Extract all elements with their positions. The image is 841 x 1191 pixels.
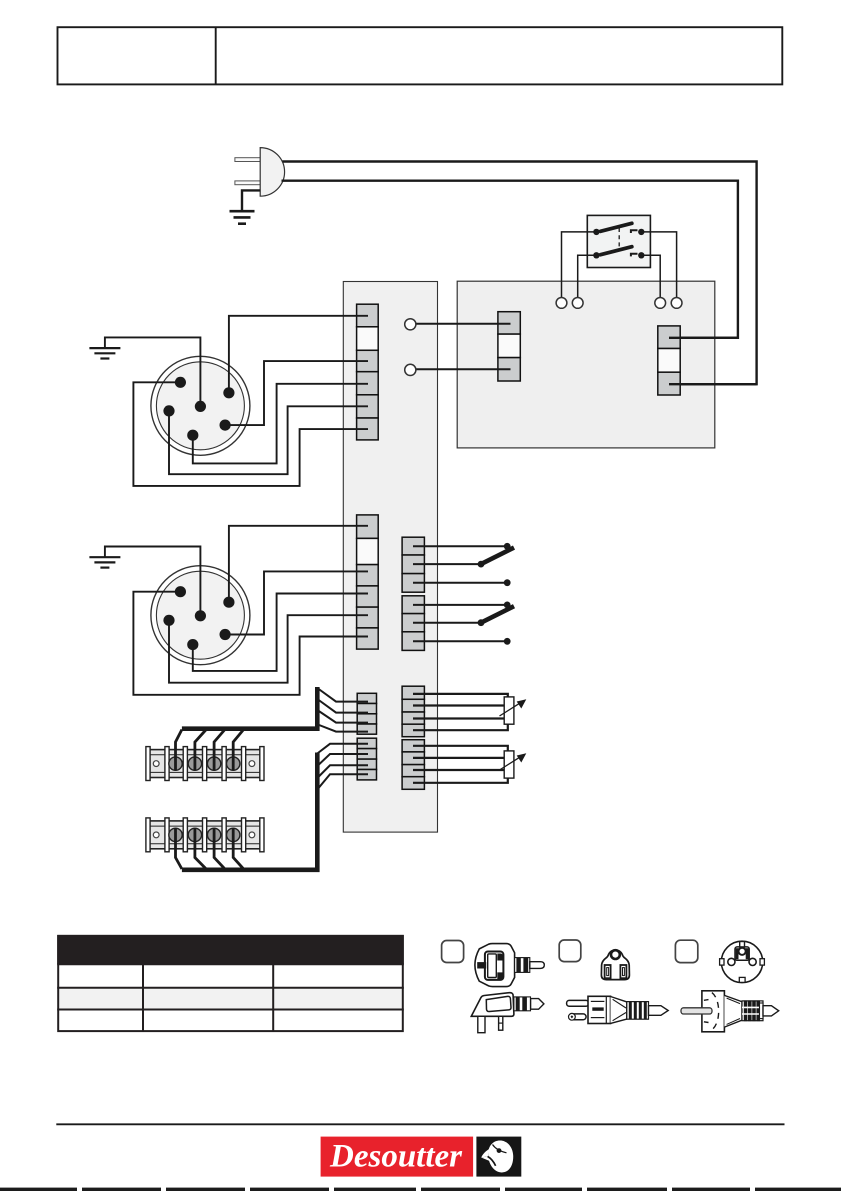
node xyxy=(504,543,511,550)
plug pin lower xyxy=(235,181,261,185)
fuse clip top xyxy=(497,954,502,961)
cord grip stripes xyxy=(514,997,531,1011)
grid xyxy=(57,936,404,1031)
row shading xyxy=(58,988,403,1010)
switch contacts S3 xyxy=(413,602,514,645)
pin 4 center xyxy=(195,401,206,412)
earth contact box xyxy=(735,947,749,960)
connector stack X2 xyxy=(357,515,379,649)
bus wire TB1 xyxy=(182,687,317,729)
node xyxy=(478,619,485,626)
wire stub left cell1 xyxy=(416,323,511,325)
wire X4.6 xyxy=(413,640,507,642)
fuse xyxy=(488,954,497,978)
potentiometer R2 xyxy=(413,746,526,783)
wire pole1 right xyxy=(641,232,676,298)
pin 6 xyxy=(187,430,198,441)
cable xyxy=(530,962,545,969)
wire pole2 left xyxy=(578,255,597,297)
wire X4.3 xyxy=(413,582,507,584)
blade pin xyxy=(567,1000,589,1006)
EU plug side xyxy=(681,991,779,1032)
wire pin5 to X1.3 xyxy=(225,361,368,425)
screw terminals xyxy=(169,828,240,841)
control unit U2 xyxy=(416,298,757,396)
connector stack X1 xyxy=(357,304,379,440)
connector stack X3 xyxy=(357,693,376,780)
mounting holes xyxy=(153,832,159,838)
ground hole xyxy=(611,950,620,959)
connector stack X4 xyxy=(402,537,424,650)
fan wires to X3 xyxy=(317,744,368,790)
pot body xyxy=(504,751,514,778)
wire pin5 to X2.3 xyxy=(225,571,368,634)
strip body xyxy=(147,750,263,778)
pin 1 xyxy=(175,586,186,597)
US plug face xyxy=(601,950,629,980)
connector block left xyxy=(498,312,520,381)
terminal circle 1 xyxy=(556,298,567,309)
wire X5.3 xyxy=(413,717,504,719)
boot stripes xyxy=(627,1002,649,1020)
US plug side xyxy=(567,996,669,1023)
header bar xyxy=(57,935,404,964)
wire X5.4 xyxy=(413,724,508,730)
board terminal circle B xyxy=(405,364,416,375)
wire pin2 to X1.1 xyxy=(229,316,368,393)
wiper arrow xyxy=(500,703,521,716)
switch contacts S2 xyxy=(413,543,514,586)
wire pin3 to X1.5 xyxy=(169,406,368,474)
fan wires to X3 xyxy=(317,688,369,732)
main board U1 outline xyxy=(343,282,437,833)
switch lever xyxy=(481,548,514,565)
wire pin6 to X2.4 xyxy=(193,594,368,671)
data table xyxy=(57,935,404,1031)
checkbox UK xyxy=(442,941,464,963)
wire pin1 to X1.6 xyxy=(133,382,368,486)
wire X5.6 xyxy=(413,757,504,759)
wire X4.4 xyxy=(413,604,507,606)
strip body xyxy=(147,821,263,849)
body xyxy=(588,996,611,1023)
DIN connector J1 xyxy=(89,316,368,486)
pot body xyxy=(504,697,514,724)
screw terminals xyxy=(169,757,240,770)
mains plug P1 xyxy=(230,148,757,385)
wire earth J1 xyxy=(105,337,200,406)
cable tip xyxy=(649,1006,669,1016)
potentiometer R1 xyxy=(413,694,526,730)
switch housing xyxy=(587,215,650,267)
board terminal circle A xyxy=(405,319,416,330)
body xyxy=(702,991,725,1032)
slot right xyxy=(620,965,626,978)
wire X5.8 xyxy=(413,778,508,783)
terminal strip TB1 xyxy=(146,687,368,781)
pin 3 xyxy=(163,615,174,626)
wiper arrow xyxy=(500,757,521,770)
checkbox US xyxy=(559,940,581,962)
pin 6 xyxy=(187,639,198,650)
fuse clip bottom xyxy=(497,972,502,979)
ground xyxy=(89,557,120,567)
cord grip stripes xyxy=(515,958,530,973)
ground xyxy=(230,211,255,224)
cable tip xyxy=(531,999,544,1010)
label window xyxy=(486,996,511,1011)
pin 2 xyxy=(223,387,234,398)
wires to bus xyxy=(176,828,244,869)
DIN connector J2 xyxy=(89,526,368,695)
control unit U2 housing xyxy=(457,281,715,448)
wire earth J2 xyxy=(105,547,200,616)
wire X5.2 xyxy=(413,704,504,706)
wire right cell1 to neutral xyxy=(669,337,738,339)
svg-text:Desoutter: Desoutter xyxy=(329,1139,463,1175)
wire X5.5 xyxy=(413,746,508,751)
ground xyxy=(89,348,120,358)
round pin xyxy=(569,1014,586,1020)
connector block right xyxy=(658,326,680,395)
wire pin6 to X1.4 xyxy=(193,384,368,464)
page-bottom strip xyxy=(0,1188,841,1191)
wire X5.7 xyxy=(413,769,504,771)
inner face xyxy=(156,362,244,450)
UK plug side xyxy=(471,993,544,1033)
side tab right xyxy=(760,959,764,965)
wire earth from plug xyxy=(242,190,260,210)
terminal circle 3 xyxy=(655,298,666,309)
Desoutter logo xyxy=(321,1137,522,1177)
node xyxy=(504,602,511,609)
wire X4.1 xyxy=(413,545,507,547)
bus wire TB2 xyxy=(182,753,317,870)
posts xyxy=(146,747,264,781)
cable tip xyxy=(763,1006,779,1016)
pin xyxy=(681,1008,712,1014)
dashed link xyxy=(618,228,620,249)
outer shell xyxy=(151,566,250,665)
switch lever xyxy=(481,606,514,623)
boot hatch xyxy=(742,1001,763,1021)
pin 5 xyxy=(220,420,231,431)
switch pole 1 xyxy=(593,223,644,235)
main board U1 xyxy=(357,304,425,789)
wire live from plug to right xyxy=(283,162,757,385)
terminal circle 4 xyxy=(671,298,682,309)
slot left xyxy=(605,965,611,978)
UK plug face xyxy=(475,944,544,987)
wire pole1 left xyxy=(562,232,597,298)
neutral pin xyxy=(477,962,486,968)
wire X4.5 xyxy=(413,622,481,624)
switch pole 2 xyxy=(593,247,644,259)
pin 4 center xyxy=(195,610,206,621)
pin 1 xyxy=(175,377,186,388)
checkbox EU xyxy=(675,940,697,962)
EU plug face xyxy=(720,941,765,982)
wire neutral from plug to right xyxy=(282,181,738,338)
inner face xyxy=(156,571,244,659)
wire X5.1 xyxy=(413,694,508,697)
line pin xyxy=(499,1016,503,1030)
wire pin1 to X2.6 xyxy=(133,592,368,695)
wires to bus xyxy=(176,730,244,771)
wire right cell3 to live xyxy=(669,383,757,385)
bottom notch xyxy=(739,977,745,982)
strain relief xyxy=(611,997,627,1024)
terminal strip TB2 xyxy=(146,744,368,870)
posts xyxy=(146,818,264,852)
pin 5 xyxy=(220,629,231,640)
mounting holes xyxy=(153,761,159,767)
title block xyxy=(58,27,783,84)
plug body xyxy=(260,148,284,197)
wire X4.2 xyxy=(413,563,481,565)
node xyxy=(504,638,511,645)
pin hole right xyxy=(749,958,756,965)
outer shell xyxy=(151,356,250,455)
pin 3 xyxy=(163,405,174,416)
wire pole2 right xyxy=(641,255,660,297)
pin hole left xyxy=(728,958,735,965)
pin 2 xyxy=(223,597,234,608)
terminal circle 2 xyxy=(572,298,583,309)
fuse holder xyxy=(485,952,504,980)
wire pin3 to X2.5 xyxy=(169,615,368,683)
plug pin upper xyxy=(235,158,261,162)
side tab left xyxy=(720,959,724,965)
node xyxy=(478,561,485,568)
wire pin2 to X2.1 xyxy=(229,526,368,602)
node xyxy=(504,579,511,586)
switch S1 xyxy=(562,215,677,297)
connector stack X5 xyxy=(402,686,424,789)
falcon head xyxy=(488,1141,513,1173)
footer rule xyxy=(56,1123,784,1125)
earth pin xyxy=(478,1016,485,1032)
taper xyxy=(724,995,742,1027)
wire stub left cell3 xyxy=(416,368,511,370)
